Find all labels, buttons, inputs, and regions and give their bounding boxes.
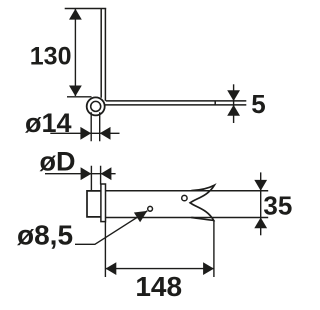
svg-text:35: 35 [263,190,292,220]
svg-text:øD: øD [40,147,76,177]
svg-text:148: 148 [135,271,182,302]
svg-text:130: 130 [30,42,72,70]
svg-text:ø8,5: ø8,5 [17,219,73,250]
svg-text:5: 5 [251,89,265,119]
svg-text:ø14: ø14 [25,108,72,138]
